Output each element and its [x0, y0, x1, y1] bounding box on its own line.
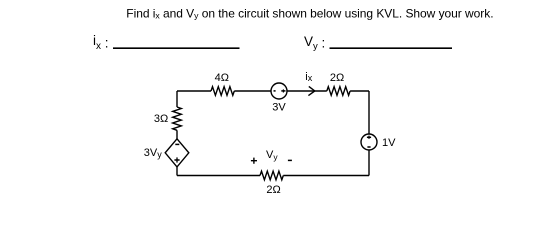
wire top segment with ix arrow [287, 90, 327, 92]
svg-text:1V: 1V [382, 137, 396, 149]
wire top-right segment [350, 90, 369, 92]
resistor R4 3ohm zigzag vertical [173, 107, 182, 130]
ix answer label [93, 33, 109, 52]
Vy answer blank line [330, 47, 453, 49]
voltage source V2 1V circle [361, 134, 377, 150]
svg-text:3V: 3V [272, 102, 286, 114]
wire left upper segment [176, 91, 178, 107]
svg-text:3Ω: 3Ω [154, 113, 168, 125]
E1 plus mark [174, 159, 179, 161]
wire bottom-left segment [177, 175, 260, 177]
wire right lower segment [368, 150, 370, 176]
ix answer blank line [113, 47, 240, 49]
svg-text:2Ω: 2Ω [330, 72, 344, 84]
resistor R2 2ohm zigzag top [327, 87, 350, 96]
wire top middle segment [234, 90, 271, 92]
wire left lower segment [176, 167, 178, 176]
svg-text:3Vy: 3Vy [144, 147, 162, 160]
svg-text:2Ω: 2Ω [266, 184, 280, 196]
plus polarity mark for Vy [251, 158, 257, 164]
resistor R1 4ohm zigzag [211, 87, 234, 96]
wire left middle segment [176, 130, 178, 139]
V1 minus mark [274, 90, 276, 92]
svg-text:ix :: ix : [93, 33, 109, 52]
V2 minus mark [367, 146, 370, 148]
svg-text:Find ix and Vy on the circuit: Find ix and Vy on the circuit shown belo… [126, 6, 493, 20]
svg-text:Vy: Vy [266, 149, 278, 162]
title [126, 6, 493, 20]
wire right upper segment [368, 91, 370, 134]
V2 plus mark [367, 136, 371, 138]
resistor R3 2ohm zigzag bottom [260, 171, 283, 180]
current arrow ix head [308, 86, 314, 95]
V1 plus mark [281, 90, 285, 92]
svg-text:ix: ix [305, 71, 312, 83]
svg-text:4Ω: 4Ω [215, 72, 229, 84]
wire bottom-right segment [283, 175, 369, 177]
Vy answer label [304, 34, 325, 52]
wire top-left segment [177, 90, 211, 92]
dependent source E1 3Vy diamond [165, 139, 189, 167]
svg-text:Vy :: Vy : [304, 34, 325, 52]
minus polarity mark for Vy [288, 159, 292, 161]
E1 minus mark [175, 143, 179, 145]
voltage source V1 3V circle [271, 83, 287, 99]
